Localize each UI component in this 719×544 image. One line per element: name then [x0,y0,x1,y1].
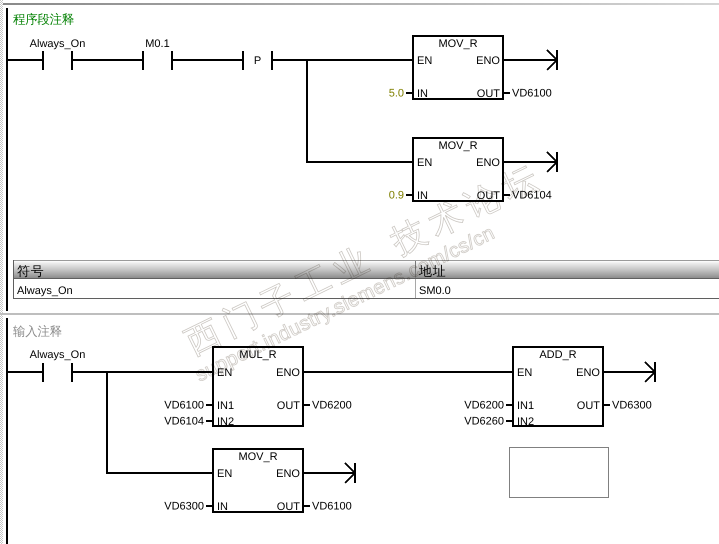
left margin hatch strip [0,0,3,544]
svg-text:OUT: OUT [477,88,501,100]
svg-text:IN2: IN2 [217,416,234,428]
wire: contact to MUL_R EN [73,371,212,373]
svg-text:MOV_R: MOV_R [238,451,277,463]
svg-text:VD6100: VD6100 [164,400,204,412]
open rung arrow (network 2 rung b) [345,463,356,483]
symbol table header row [13,260,719,261]
power rail (network 2) [6,318,8,544]
svg-text:M0.1: M0.1 [145,38,169,50]
ADD_R box U4 (network 2) [513,347,603,428]
svg-text:ENO: ENO [476,157,500,169]
power rail (network 1) [6,8,8,311]
MOV_R box U1 (network 1 rung a) [413,36,503,100]
svg-text:EN: EN [217,468,232,480]
svg-text:VD6100: VD6100 [512,88,552,100]
selection cursor (dotted empty cell) [510,448,609,498]
svg-text:Always_On: Always_On [17,285,73,297]
wire: U4.ENO to open arrow [604,371,655,373]
contact Always_On (network 2) [30,349,86,382]
wire: branch vertical to rung 2b [106,371,108,474]
svg-text:IN2: IN2 [517,416,534,428]
svg-text:0.9: 0.9 [389,190,404,202]
open rung arrow (network 1 rung b) [547,152,558,172]
svg-text:EN: EN [417,157,432,169]
svg-text:Always_On: Always_On [30,349,86,361]
operand VD6100 at U5.OUT [304,501,352,513]
network separator line [0,313,719,315]
value 0.9 at U2.IN [389,190,412,202]
svg-text:SM0.0: SM0.0 [419,285,451,297]
svg-text:VD6100: VD6100 [312,501,352,513]
svg-text:ENO: ENO [476,55,500,67]
svg-text:VD6200: VD6200 [464,400,504,412]
positive edge contact P [242,51,273,70]
svg-text:VD6104: VD6104 [164,416,204,428]
svg-text:VD6300: VD6300 [612,400,652,412]
header cell 地址 [419,265,445,277]
svg-text:VD6104: VD6104 [512,190,552,202]
svg-text:ENO: ENO [276,367,300,379]
svg-text:MOV_R: MOV_R [438,140,477,152]
svg-text:OUT: OUT [577,400,601,412]
svg-text:EN: EN [517,367,532,379]
watermark: 西门子工业 技术论坛 / support.industry.siemens.com [175,160,553,386]
svg-text:IN1: IN1 [217,400,234,412]
svg-text:5.0: 5.0 [389,88,404,100]
value 5.0 at U1.IN [389,88,412,100]
wire: U1.ENO to open arrow [504,59,556,61]
operand VD6104 at U2.OUT [504,190,552,202]
svg-text:ENO: ENO [276,468,300,480]
svg-text:OUT: OUT [277,400,301,412]
operand VD6100 at U1.OUT [504,88,552,100]
wire: rail to contact Always_On [8,59,42,61]
symbol table [13,260,719,299]
contact M0.1 [142,38,173,70]
wire: branch to MOV_R box 3 EN [108,472,212,474]
svg-text:P: P [254,55,261,67]
network 2 comment text 输入注释 [13,325,61,337]
open rung arrow (network 2 rung a) [645,362,656,382]
open rung arrow (network 1 rung a) [547,50,558,70]
svg-text:IN: IN [417,88,428,100]
svg-text:IN1: IN1 [517,400,534,412]
wire: rail to contact Always_On (network 2) [8,371,42,373]
header cell 符号 [17,265,43,277]
svg-text:ADD_R: ADD_R [539,349,576,361]
wire: M0.1 to P contact [173,59,242,61]
operand VD6200 at U3.OUT [304,400,352,412]
toolbar bottom edge line [3,3,719,5]
wire: P contact to MOV_R box 1 EN [273,59,412,61]
wire: branch to MOV_R box 2 EN [308,161,412,163]
operand VD6104 at U3.IN2 [164,416,212,428]
svg-text:IN: IN [417,190,428,202]
svg-text:VD6200: VD6200 [312,400,352,412]
svg-text:VD6300: VD6300 [164,501,204,513]
symbol table body bottom border [13,298,719,299]
symbol table column divider [415,261,416,278]
wire: U5.ENO to open arrow [304,472,355,474]
operand VD6200 at U4.IN1 [464,400,512,412]
svg-text:Always_On: Always_On [30,38,86,50]
wire: Always_On to contact M0.1 [73,59,142,61]
wire: U3.ENO to ADD_R EN [304,371,512,373]
operand VD6100 at U3.IN1 [164,400,212,412]
wire: branch vertical to rung 1b [306,59,308,163]
symbol table left border [13,260,14,299]
contact Always_On (SM0.0) [30,38,86,70]
operand VD6300 at U4.OUT [604,400,652,412]
svg-text:IN: IN [217,501,228,513]
svg-text:OUT: OUT [277,501,301,513]
MUL_R box U3 (network 2) [213,347,303,428]
network 1 comment text 程序段注释 [13,13,74,25]
svg-text:EN: EN [417,55,432,67]
svg-text:ENO: ENO [576,367,600,379]
svg-text:VD6260: VD6260 [464,416,504,428]
MOV_R box U5 (network 2 rung b) [213,449,303,513]
operand VD6300 at U5.IN [164,501,212,513]
wire: U2.ENO to open arrow [504,161,556,163]
MOV_R box U2 (network 1 rung b) [413,138,503,202]
svg-text:MOV_R: MOV_R [438,38,477,50]
operand VD6260 at U4.IN2 [464,416,512,428]
